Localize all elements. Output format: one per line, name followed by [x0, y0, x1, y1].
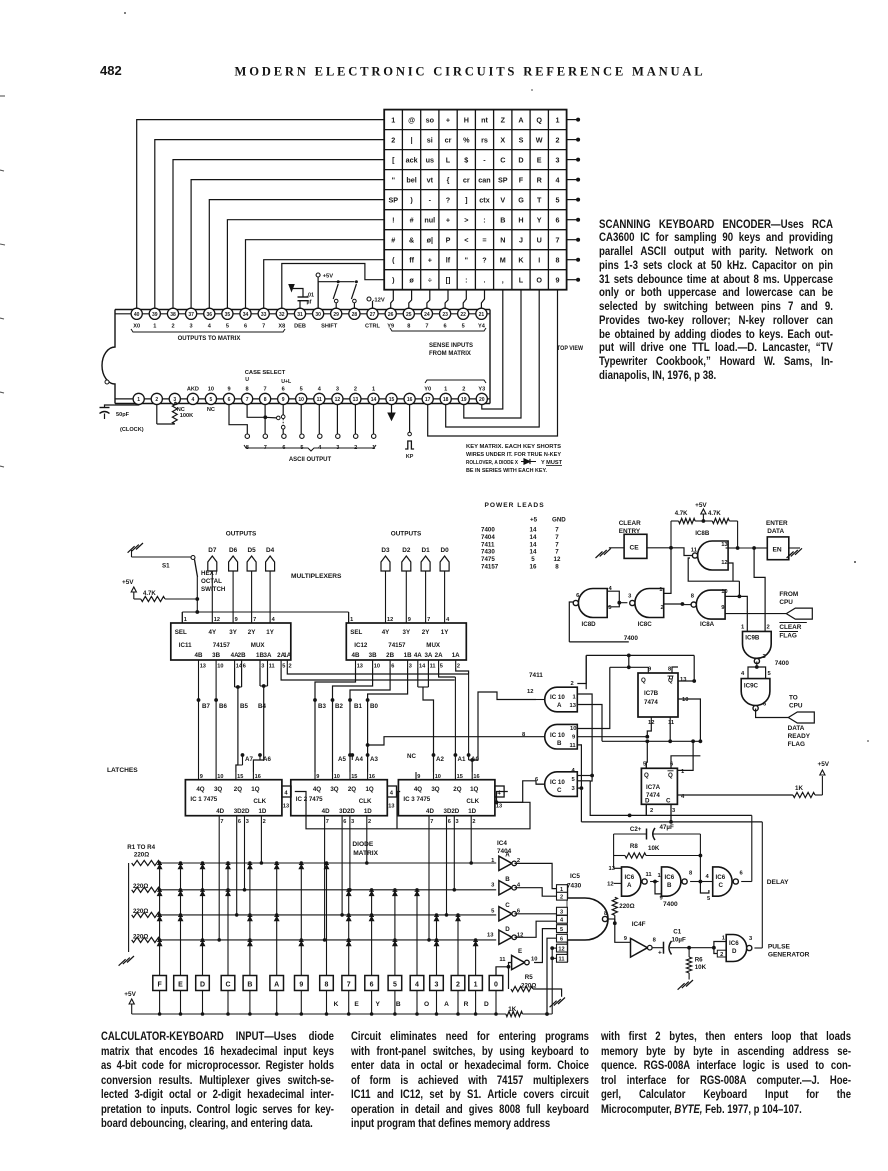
svg-text:9: 9: [316, 774, 319, 780]
svg-text:4Q: 4Q: [196, 786, 204, 793]
svg-text:34: 34: [243, 312, 249, 318]
NAND gate IC9B pointing down: [741, 625, 771, 664]
wire IC7A pin6 stub up right: [671, 739, 702, 768]
caption text column 2: [351, 1029, 589, 1131]
wire node A to IC8B output bubble: [671, 548, 692, 556]
svg-text:5: 5: [462, 324, 465, 330]
svg-text:6: 6: [244, 324, 247, 330]
pin-1 index mark: [105, 380, 109, 384]
svg-text:{: {: [447, 175, 450, 184]
svg-text:IC4: IC4: [497, 840, 507, 847]
svg-text:-12V: -12V: [373, 298, 385, 304]
svg-text:8: 8: [264, 397, 267, 403]
svg-text:2: 2: [571, 681, 574, 687]
svg-text:,: ,: [502, 276, 504, 285]
svg-text:K: K: [334, 1001, 339, 1008]
svg-text:.01: .01: [307, 293, 315, 299]
svg-text:4: 4: [556, 175, 560, 184]
svg-text:30: 30: [315, 312, 321, 318]
wire IC8A.10 to IC9B.1: [725, 581, 747, 631]
svg-text:Q: Q: [644, 772, 649, 779]
svg-text:4: 4: [390, 791, 394, 797]
svg-text:10: 10: [298, 397, 304, 403]
svg-text:20: 20: [479, 397, 485, 403]
svg-text:74157: 74157: [213, 642, 231, 649]
svg-text:2D: 2D: [347, 808, 355, 815]
svg-text:Y3: Y3: [478, 387, 485, 393]
svg-text:CLEAR: CLEAR: [779, 624, 801, 631]
svg-text:SEL: SEL: [175, 629, 187, 636]
svg-text:SP: SP: [389, 196, 399, 205]
svg-text:13: 13: [283, 804, 289, 810]
caption text: scanning keyboard encoder: [599, 218, 833, 383]
svg-text:CPU: CPU: [789, 703, 803, 710]
svg-text:7: 7: [425, 324, 428, 330]
svg-text:40: 40: [134, 312, 140, 318]
inverter IC4C: [491, 902, 558, 921]
svg-text:SEL: SEL: [350, 629, 362, 636]
svg-text:MUX: MUX: [251, 642, 266, 649]
resistor R1 220 ohm: [132, 852, 161, 866]
svg-text:13: 13: [680, 677, 687, 683]
svg-text:47µF: 47µF: [660, 824, 674, 831]
svg-text:ø|: ø|: [427, 236, 433, 245]
svg-text:+: +: [658, 950, 662, 957]
svg-text:C: C: [225, 982, 230, 989]
bottom pin function labels: [187, 387, 485, 393]
svg-text:=: =: [482, 236, 486, 245]
svg-text:21: 21: [479, 312, 485, 318]
svg-text:C: C: [500, 155, 505, 164]
svg-text:C: C: [719, 882, 724, 889]
svg-text:1D: 1D: [468, 808, 476, 815]
svg-text:11: 11: [570, 743, 577, 749]
svg-text:cr: cr: [463, 175, 470, 184]
svg-text:4.7K: 4.7K: [708, 511, 721, 517]
svg-text:1: 1: [474, 982, 478, 989]
svg-text:9: 9: [227, 387, 230, 393]
svg-text:R1 TO R4: R1 TO R4: [127, 844, 155, 851]
svg-text:10: 10: [682, 697, 688, 703]
svg-text:6: 6: [556, 216, 560, 225]
svg-text:NC: NC: [207, 407, 215, 413]
svg-text:11: 11: [559, 957, 565, 963]
svg-text:ROLLOVER, A DIODE X: ROLLOVER, A DIODE X: [466, 460, 518, 466]
svg-text:<: <: [464, 236, 468, 245]
svg-text:12: 12: [387, 617, 393, 623]
svg-text:I: I: [538, 256, 540, 265]
svg-text:IC 10: IC 10: [550, 732, 565, 739]
svg-text:DIODE: DIODE: [352, 841, 373, 848]
svg-text:POWER LEADS: POWER LEADS: [485, 502, 545, 509]
svg-text:4.7K: 4.7K: [143, 591, 156, 597]
wire IC7A pin5 stub: [645, 762, 647, 768]
svg-text:10: 10: [217, 664, 223, 670]
svg-text:37: 37: [188, 312, 194, 318]
svg-text:": ": [465, 256, 468, 265]
label HEX/OCTAL SWITCH: [201, 570, 226, 593]
svg-text:220Ω: 220Ω: [619, 903, 634, 910]
svg-text:B2: B2: [335, 703, 343, 710]
svg-text:!: !: [392, 216, 394, 225]
svg-text:IC7B: IC7B: [644, 690, 659, 697]
svg-text:19: 19: [461, 397, 467, 403]
ascii output stubs and terminals: [245, 405, 376, 452]
wire IC7A pin1 loop: [677, 739, 695, 770]
svg-text:24: 24: [424, 312, 430, 318]
resistor R5 220 ohm: [509, 967, 566, 1007]
svg-text:5: 5: [768, 671, 772, 677]
svg-text:5: 5: [440, 664, 443, 670]
ground on pin 15: [388, 405, 395, 421]
svg-text:R: R: [464, 1001, 469, 1008]
svg-text:NC: NC: [407, 753, 416, 760]
svg-text:7: 7: [427, 617, 430, 623]
top pin function labels: [133, 324, 485, 330]
svg-text:4: 4: [192, 397, 195, 403]
svg-text:23: 23: [442, 312, 448, 318]
ground at EN: [787, 548, 802, 558]
svg-text:4D: 4D: [426, 808, 434, 815]
svg-text:+5V: +5V: [124, 991, 136, 998]
svg-text:Q: Q: [668, 772, 673, 779]
wires IC10C inputs: [577, 776, 592, 789]
svg-text:7400: 7400: [663, 901, 678, 908]
svg-text:7400: 7400: [775, 660, 790, 667]
svg-text:5: 5: [393, 982, 397, 989]
svg-text:B1: B1: [354, 703, 362, 710]
svg-text:R: R: [537, 175, 543, 184]
page number 482: [100, 63, 122, 78]
svg-text:A4: A4: [355, 756, 363, 763]
svg-text:3: 3: [435, 982, 439, 989]
svg-text:IC 2 7475: IC 2 7475: [296, 796, 323, 803]
svg-text:1Y: 1Y: [266, 629, 274, 636]
svg-text:R8: R8: [630, 843, 638, 850]
svg-text:7475: 7475: [481, 556, 495, 563]
svg-text:B4: B4: [258, 703, 266, 710]
svg-text:D: D: [645, 798, 650, 805]
svg-text:IC11: IC11: [179, 642, 192, 649]
svg-text:B: B: [667, 882, 672, 889]
svg-text:E: E: [178, 982, 183, 989]
svg-text:A: A: [627, 882, 632, 889]
svg-text:FLAG: FLAG: [788, 741, 805, 748]
svg-text:B: B: [557, 740, 562, 747]
svg-text:D: D: [200, 982, 205, 989]
labels NC under pins 3 and 5: [177, 407, 215, 413]
svg-text:8: 8: [653, 938, 657, 944]
svg-text:KP: KP: [406, 454, 414, 460]
wire IC8B.12 feedback: [688, 558, 739, 581]
resistor 220 ohm to IC4F node: [612, 897, 634, 923]
svg-text:14: 14: [530, 541, 537, 548]
svg-text:+5V: +5V: [122, 579, 134, 586]
svg-text:9: 9: [200, 774, 203, 780]
svg-text:C: C: [505, 902, 510, 909]
svg-text:IC4F: IC4F: [632, 921, 646, 928]
wire IC1 CLK to clock bus: [295, 792, 397, 829]
svg-text:DATA: DATA: [767, 528, 784, 535]
svg-text:READY: READY: [788, 733, 811, 740]
svg-text:GND: GND: [552, 517, 566, 524]
svg-text:1B: 1B: [404, 652, 412, 659]
svg-text:7: 7: [326, 819, 329, 825]
svg-text:MODERN ELECTRONIC CIRCUITS REF: MODERN ELECTRONIC CIRCUITS REFERENCE MAN…: [235, 65, 706, 79]
enter-data pushbutton EN box: [767, 537, 789, 560]
svg-text:35: 35: [225, 312, 231, 318]
svg-text:W: W: [536, 135, 543, 144]
svg-text:E: E: [518, 948, 522, 955]
svg-text:7400: 7400: [624, 635, 639, 642]
svg-text:1: 1: [444, 387, 447, 393]
svg-text:MULTIPLEXERS: MULTIPLEXERS: [291, 573, 342, 580]
caption text column 1: [101, 1029, 334, 1131]
svg-text:A: A: [518, 115, 523, 124]
svg-text:11: 11: [691, 548, 698, 554]
wire IC9C.6 to DATA READY flag: [756, 709, 789, 718]
wire EN node to IC9B.2: [754, 548, 765, 631]
svg-text:3: 3: [749, 936, 753, 942]
svg-text:3: 3: [336, 387, 339, 393]
wire IC5 pin5 from IC4E output: [534, 929, 557, 963]
-12V source to pin 27: [367, 297, 385, 308]
label (CLOCK): [120, 427, 144, 433]
CTRL switch on pin 28: [351, 280, 358, 308]
svg-text:10: 10: [531, 957, 537, 963]
svg-text:2: 2: [289, 664, 292, 670]
svg-text:2: 2: [661, 605, 664, 611]
svg-text:7400: 7400: [481, 527, 495, 534]
svg-text:U: U: [245, 377, 249, 383]
svg-text:1: 1: [137, 397, 140, 403]
svg-text:25: 25: [406, 312, 412, 318]
svg-text:si: si: [427, 135, 433, 144]
svg-text:CPU: CPU: [779, 599, 793, 606]
wire IC8B.13 to EN node: [726, 546, 768, 550]
svg-text:3: 3: [190, 324, 193, 330]
svg-text:BE IN SERIES WITH EACH KEY.: BE IN SERIES WITH EACH KEY.: [466, 468, 547, 474]
svg-text:2Y: 2Y: [248, 629, 256, 636]
svg-text:4: 4: [318, 387, 322, 393]
svg-text:7404: 7404: [481, 534, 495, 541]
inverter IC4F: [631, 938, 657, 958]
svg-text:12: 12: [554, 556, 561, 563]
svg-text:G: G: [518, 196, 524, 205]
matrix right-side key-line stubs with dots: [567, 118, 581, 282]
svg-text:38: 38: [170, 312, 176, 318]
svg-text:$: $: [464, 155, 468, 164]
svg-text:3: 3: [491, 883, 495, 889]
svg-text:4.7K: 4.7K: [675, 511, 688, 517]
resistor R8 10K: [614, 843, 703, 858]
svg-text:+: +: [446, 115, 450, 124]
SHIFT switch on pin 29: [333, 280, 340, 308]
svg-text:7: 7: [555, 549, 559, 556]
svg-text:13: 13: [388, 804, 394, 810]
svg-text:100K: 100K: [180, 413, 193, 419]
svg-text:lf: lf: [446, 256, 451, 265]
svg-text:13: 13: [353, 397, 359, 403]
label R1 TO R4: [127, 844, 155, 851]
svg-text:3Q: 3Q: [330, 786, 338, 793]
svg-text:B5: B5: [240, 703, 248, 710]
svg-text:E: E: [537, 155, 542, 164]
svg-text:SHIFT: SHIFT: [321, 324, 338, 330]
svg-text:4: 4: [415, 982, 419, 989]
inline diode symbol in note: [521, 459, 536, 464]
wires matrix columns 5-6 to IC pins 22-21: [463, 290, 484, 309]
wire IC12.14+11 pair to IC3: [418, 668, 434, 772]
svg-text:12: 12: [721, 560, 727, 566]
svg-text:CLEAR: CLEAR: [619, 520, 641, 527]
svg-text:4B: 4B: [195, 652, 203, 659]
+5V center arrow: [695, 502, 707, 523]
svg-text:IC6: IC6: [625, 874, 635, 881]
svg-text:32: 32: [279, 312, 285, 318]
svg-text:4D: 4D: [322, 808, 330, 815]
svg-text:13: 13: [570, 703, 577, 709]
svg-text:2: 2: [391, 135, 395, 144]
svg-text:[: [: [392, 155, 395, 164]
wire key bus to IC5 pins 12+11: [551, 959, 553, 1014]
wire IC10C output run: [536, 783, 545, 785]
wire IC7A pin4 to 1K: [677, 794, 793, 796]
svg-text:E: E: [354, 1001, 359, 1008]
bracket over Y0-Y3: [425, 380, 486, 383]
svg-text:16: 16: [369, 774, 375, 780]
svg-text:29: 29: [333, 312, 339, 318]
wire IC11.5 2A input run: [281, 668, 455, 680]
gate IC5 7430 eight-input NAND: [557, 884, 609, 963]
svg-text:+5V: +5V: [323, 274, 334, 280]
wires from matrix rows 1-8 to IC pins 40-33 (outputs to matrix): [137, 120, 385, 309]
svg-text:2B: 2B: [386, 652, 394, 659]
label TOP VIEW: [557, 345, 583, 352]
svg-text:D: D: [518, 155, 523, 164]
svg-text:18: 18: [443, 397, 449, 403]
svg-text:10: 10: [208, 387, 214, 393]
svg-text:ø: ø: [409, 276, 414, 285]
IC CA3600 package body: [102, 310, 490, 404]
resistor 1K in key bus: [506, 1006, 552, 1017]
svg-text:|: |: [411, 135, 413, 144]
svg-text:10K: 10K: [695, 964, 707, 971]
svg-text:1Y: 1Y: [441, 629, 449, 636]
svg-text:S: S: [519, 135, 524, 144]
svg-text:6: 6: [243, 664, 246, 670]
svg-text::: :: [483, 216, 485, 225]
svg-text:T: T: [537, 196, 542, 205]
latch data wires into matrix rows: [217, 823, 473, 942]
svg-text:12: 12: [335, 397, 341, 403]
svg-text:10µF: 10µF: [672, 937, 686, 944]
wire CE to node A: [647, 546, 673, 550]
svg-text:LATCHES: LATCHES: [107, 767, 138, 774]
svg-text:13: 13: [487, 933, 494, 939]
svg-text:14: 14: [530, 527, 537, 534]
wire A5 at IC2.15: [338, 753, 352, 763]
svg-text:14: 14: [530, 534, 537, 541]
svg-text:D5: D5: [248, 547, 257, 554]
svg-text:9: 9: [624, 936, 628, 942]
wire IC8A bubble to junction: [682, 604, 691, 606]
case-select jumper wiring pins 7-9: [247, 405, 285, 436]
svg-text:6: 6: [391, 664, 394, 670]
svg-text:IC 10: IC 10: [550, 694, 565, 701]
svg-text:X0: X0: [133, 324, 140, 330]
NAND gate IC9C pointing down: [741, 679, 770, 711]
svg-text:IC8D: IC8D: [582, 621, 597, 628]
svg-text:4: 4: [272, 617, 276, 623]
NAND gate IC6A: [607, 867, 652, 896]
clock network: 50 pF capacitor on pin 1: [100, 405, 139, 420]
NAND gate IC6D: [726, 935, 753, 962]
svg-text:1: 1: [391, 115, 395, 124]
svg-text:2: 2: [720, 952, 723, 958]
wire A3 at IC2.16: [366, 753, 379, 763]
svg-text:5: 5: [531, 556, 535, 563]
wire C1 node to IC6D inputs: [689, 936, 726, 959]
svg-text:3Q: 3Q: [431, 786, 439, 793]
flag DATA READY: [788, 712, 814, 723]
svg-text:7430: 7430: [481, 549, 495, 556]
svg-text:[]: []: [446, 276, 451, 285]
svg-text:2: 2: [472, 819, 475, 825]
label 7400 for IC8: [624, 635, 639, 642]
svg-text:11: 11: [430, 664, 436, 670]
wire IC12.5 to A1: [439, 668, 456, 677]
svg-text:7411: 7411: [481, 541, 495, 548]
svg-text:2: 2: [368, 819, 371, 825]
svg-text:OUTPUTS: OUTPUTS: [391, 531, 422, 538]
svg-text:2Q: 2Q: [348, 786, 356, 793]
svg-text:7: 7: [347, 982, 351, 989]
wires IC10B inputs: [577, 667, 647, 822]
svg-text:CLK: CLK: [359, 798, 372, 805]
svg-text:10: 10: [374, 664, 380, 670]
svg-text:10: 10: [721, 589, 727, 595]
svg-text:IC6: IC6: [665, 874, 675, 881]
matrix row lines to IC4 inverters: [160, 863, 496, 940]
svg-text:13: 13: [357, 664, 363, 670]
svg-text:8: 8: [556, 256, 560, 265]
svg-text:28: 28: [352, 312, 358, 318]
wire IC6A to IC6B: [650, 873, 664, 902]
wire IC7B pin9 feed: [610, 654, 649, 674]
svg-text:6: 6: [448, 819, 451, 825]
AND gate IC10C: [535, 768, 577, 796]
label CLEAR ENTRY: [619, 520, 641, 535]
svg-text:1Q: 1Q: [470, 786, 478, 793]
IC bottom pins 1-20: [133, 393, 487, 404]
wire key 0 to IC4E input: [496, 963, 512, 976]
svg-text:Y: Y: [375, 1001, 380, 1008]
svg-text:10: 10: [334, 774, 340, 780]
svg-text:14: 14: [371, 397, 377, 403]
wire IC6D output up to pulse bus: [754, 822, 762, 948]
svg-text:4D: 4D: [216, 808, 224, 815]
svg-text:15: 15: [457, 774, 463, 780]
wire A0 to IC3.16: [467, 674, 480, 772]
svg-text:R5: R5: [525, 974, 533, 981]
svg-text:Q: Q: [536, 115, 542, 124]
svg-text:7: 7: [555, 534, 559, 541]
svg-text:3: 3: [456, 819, 459, 825]
label 7400 for IC6: [663, 901, 678, 908]
svg-text:6: 6: [444, 324, 447, 330]
svg-text:14: 14: [419, 664, 426, 670]
